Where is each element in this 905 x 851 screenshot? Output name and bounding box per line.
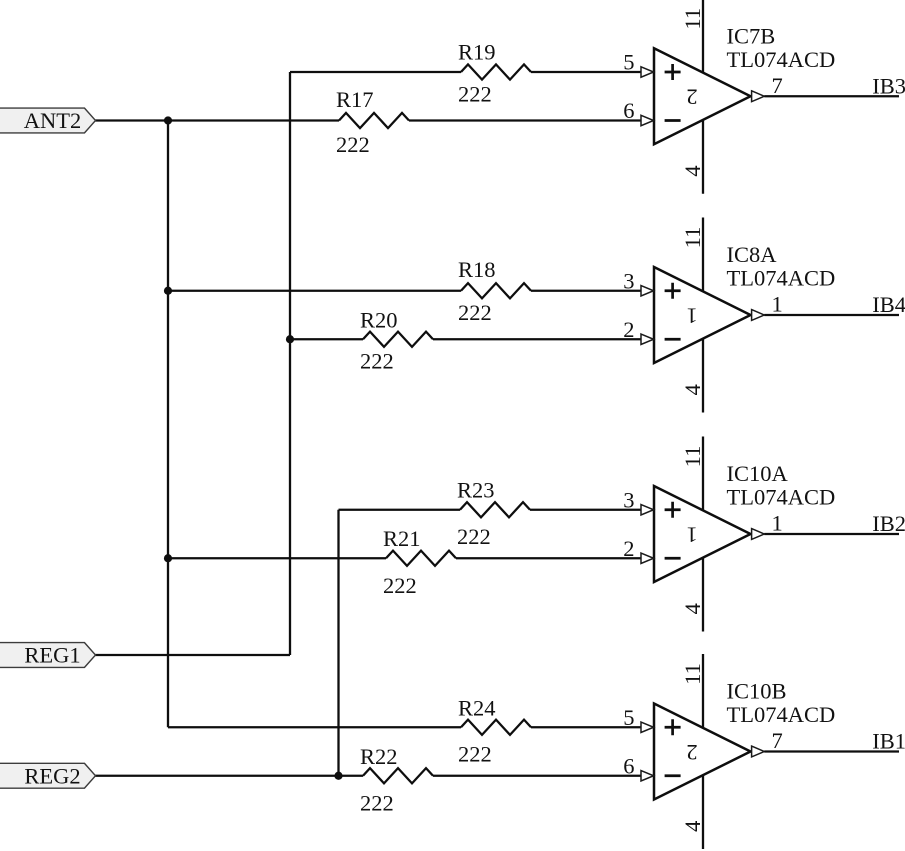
op-amp IC7B non-inverting input pin arrow <box>641 67 654 77</box>
svg-text:1: 1 <box>686 522 697 547</box>
wire ANT2 bus to R21 <box>168 557 386 559</box>
svg-text:222: 222 <box>383 573 417 598</box>
svg-text:222: 222 <box>458 300 492 325</box>
op-amp IC10A power rail <box>702 437 704 632</box>
port REG2 <box>0 763 96 788</box>
junction REG1 bus/R20 <box>286 335 294 343</box>
svg-text:11: 11 <box>680 663 705 685</box>
wire REG2 port to R22 <box>95 775 363 777</box>
resistor R20 <box>363 332 433 347</box>
op-amp IC10A non-inverting input pin arrow <box>641 505 654 515</box>
svg-text:2: 2 <box>623 317 634 342</box>
svg-text:11: 11 <box>680 227 705 249</box>
svg-text:2: 2 <box>623 536 634 561</box>
wire REG2 bus to R23 <box>339 509 461 511</box>
op-amp IC8A inverting input pin arrow <box>641 334 654 344</box>
svg-text:IB4: IB4 <box>872 292 905 317</box>
svg-text:R18: R18 <box>458 257 496 282</box>
svg-text:4: 4 <box>680 384 705 395</box>
svg-text:222: 222 <box>360 791 394 816</box>
svg-text:REG1: REG1 <box>24 643 80 668</box>
op-amp IC10B output pin arrow <box>752 746 765 757</box>
svg-text:1: 1 <box>772 511 783 536</box>
wire R17 to IC7B pin 6 <box>409 119 641 121</box>
wire ANT2 bus to R24 <box>168 726 461 728</box>
svg-text:3: 3 <box>623 268 634 293</box>
svg-text:TL074ACD: TL074ACD <box>727 702 836 727</box>
svg-text:1: 1 <box>772 292 783 317</box>
wire ANT2 vertical bus <box>167 121 169 728</box>
svg-text:IB3: IB3 <box>872 73 905 98</box>
svg-text:7: 7 <box>772 728 783 753</box>
resistor R19 <box>461 64 531 79</box>
svg-text:3: 3 <box>623 487 634 512</box>
resistor R21 <box>386 551 456 566</box>
wire IC10A output to IB2 <box>764 533 899 535</box>
svg-text:11: 11 <box>680 8 705 30</box>
wire REG1 vertical bus <box>289 72 291 655</box>
svg-text:ANT2: ANT2 <box>24 108 82 133</box>
op-amp IC8A output pin arrow <box>752 310 765 321</box>
resistor R22 <box>363 768 433 783</box>
wire R19 to IC7B pin 5 <box>531 71 641 73</box>
svg-text:4: 4 <box>680 165 705 176</box>
op-amp IC7B inverting input pin arrow <box>641 115 654 125</box>
svg-text:IC8A: IC8A <box>727 242 778 267</box>
port ANT2 <box>0 108 96 133</box>
svg-text:6: 6 <box>623 753 634 778</box>
wire IC10B output to IB1 <box>764 750 899 752</box>
svg-text:222: 222 <box>360 348 394 373</box>
svg-text:R19: R19 <box>458 39 496 64</box>
svg-text:IB2: IB2 <box>872 511 905 536</box>
svg-text:TL074ACD: TL074ACD <box>727 47 836 72</box>
wire ANT2 bus to R18 <box>168 290 461 292</box>
wire ANT2 port to R17 <box>95 119 339 121</box>
op-amp IC7B power rail <box>702 0 704 194</box>
svg-text:222: 222 <box>336 132 370 157</box>
svg-text:TL074ACD: TL074ACD <box>727 266 836 291</box>
wire REG1 bus to R19 <box>290 71 461 73</box>
resistor R23 <box>460 502 530 517</box>
wire REG1 port to vertical <box>95 654 290 656</box>
junction ANT2 bus/R18 <box>164 287 172 295</box>
svg-text:222: 222 <box>458 741 492 766</box>
svg-text:5: 5 <box>623 705 634 730</box>
resistor R18 <box>461 283 531 298</box>
svg-text:IC10A: IC10A <box>727 461 789 486</box>
op-amp IC8A power rail <box>702 218 704 413</box>
wire R20 to IC8A pin 2 <box>433 338 641 340</box>
op-amp IC10B body <box>654 704 751 800</box>
op-amp IC10B inverting input pin arrow <box>641 771 654 781</box>
wire R21 to IC10A pin 2 <box>456 557 641 559</box>
svg-text:IB1: IB1 <box>872 729 905 754</box>
svg-text:IC7B: IC7B <box>727 23 776 48</box>
op-amp IC10A inverting input pin arrow <box>641 553 654 563</box>
svg-text:2: 2 <box>686 85 697 110</box>
svg-text:222: 222 <box>457 524 491 549</box>
junction ANT2 bus/R21 <box>164 554 172 562</box>
wire REG2 vertical bus <box>337 510 339 776</box>
op-amp IC10B non-inverting input pin arrow <box>641 722 654 732</box>
svg-text:2: 2 <box>686 740 697 765</box>
junction REG2/R22 <box>334 772 342 780</box>
wire R22 to IC10B pin 6 <box>433 775 641 777</box>
svg-text:5: 5 <box>623 50 634 75</box>
wire R23 to IC10A pin 3 <box>530 509 641 511</box>
svg-text:R17: R17 <box>336 87 374 112</box>
svg-text:7: 7 <box>772 73 783 98</box>
svg-text:222: 222 <box>458 82 492 107</box>
op-amp IC7B output pin arrow <box>752 91 765 102</box>
wire IC8A output to IB4 <box>764 314 899 316</box>
svg-text:4: 4 <box>680 821 705 832</box>
svg-text:R24: R24 <box>458 695 496 720</box>
svg-text:4: 4 <box>680 603 705 614</box>
svg-text:TL074ACD: TL074ACD <box>727 485 836 510</box>
svg-text:R22: R22 <box>360 744 398 769</box>
op-amp IC8A body <box>654 267 751 363</box>
op-amp IC10A output pin arrow <box>752 529 765 540</box>
svg-text:R20: R20 <box>360 307 398 332</box>
svg-text:REG2: REG2 <box>24 763 80 788</box>
svg-text:1: 1 <box>686 303 697 328</box>
op-amp IC7B body <box>654 48 751 144</box>
wire R18 to IC8A pin 3 <box>531 290 641 292</box>
svg-text:IC10B: IC10B <box>727 679 787 704</box>
wire REG1 bus to R20 <box>290 338 363 340</box>
resistor R17 <box>339 113 409 128</box>
svg-text:11: 11 <box>680 446 705 468</box>
op-amp IC10A body <box>654 486 751 582</box>
wire R24 to IC10B pin 5 <box>531 726 641 728</box>
svg-text:6: 6 <box>623 98 634 123</box>
svg-text:R23: R23 <box>457 477 495 502</box>
svg-text:R21: R21 <box>383 526 421 551</box>
junction ANT2/R17 <box>164 116 172 124</box>
port REG1 <box>0 643 96 668</box>
op-amp IC8A non-inverting input pin arrow <box>641 286 654 296</box>
wire IC7B output to IB3 <box>764 95 899 97</box>
op-amp IC10B power rail <box>702 654 704 849</box>
resistor R24 <box>461 720 531 735</box>
